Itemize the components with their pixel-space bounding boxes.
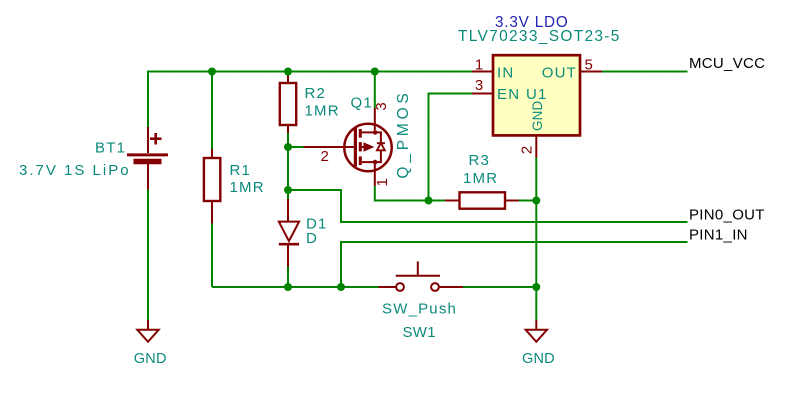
junction node EN / R3	[425, 197, 433, 205]
wire D1 top green	[287, 190, 289, 199]
wire R3 left green	[429, 200, 446, 202]
svg-text:GND: GND	[530, 100, 545, 130]
svg-text:GND: GND	[522, 351, 555, 367]
junction node GND rail	[532, 283, 540, 291]
svg-text:TLV70233_SOT23-5: TLV70233_SOT23-5	[458, 28, 621, 45]
wire R3 right green to U1 GND line	[519, 200, 536, 202]
ground symbol at battery	[137, 320, 158, 342]
svg-text:BT1: BT1	[95, 139, 126, 156]
wire EN from U1 down to R3 node	[429, 94, 473, 201]
junction node on rail at R2	[284, 68, 292, 76]
svg-text:PIN1_IN: PIN1_IN	[689, 227, 748, 244]
wire U1 GND down to GND symbol	[535, 158, 537, 321]
svg-text:MCU_VCC: MCU_VCC	[689, 55, 765, 72]
svg-text:R1: R1	[230, 162, 252, 179]
svg-text:1MR: 1MR	[230, 179, 265, 196]
wire switch right to GND node	[463, 286, 536, 288]
svg-text:IN: IN	[497, 65, 514, 82]
svg-text:U1: U1	[526, 86, 548, 103]
svg-text:SW1: SW1	[403, 324, 436, 341]
resistor R3	[445, 192, 519, 208]
junction node on rail at R1	[208, 68, 216, 76]
wire R2 bottom to gate node to D1 node	[287, 133, 289, 190]
junction node gate	[284, 143, 292, 151]
junction node PIN1 rail	[337, 283, 345, 291]
svg-text:Q1: Q1	[351, 95, 373, 112]
junction node R3 / U1 GND	[532, 197, 540, 205]
wire D1 bottom green	[287, 267, 289, 288]
svg-text:OUT: OUT	[542, 65, 577, 82]
svg-text:SW_Push: SW_Push	[382, 301, 457, 318]
wire top rail from battery to U1 IN	[148, 72, 472, 128]
resistor R1	[204, 149, 220, 224]
battery BT1	[127, 127, 168, 190]
svg-text:3: 3	[475, 77, 483, 94]
regulator U1 TLV70233	[472, 55, 602, 157]
wire R1 bottom down	[211, 224, 213, 288]
wire Q1 drain to R3 node	[375, 186, 429, 201]
push button SW1	[379, 261, 464, 291]
wire PIN0_OUT branch	[288, 190, 688, 222]
wire bottom rail to switch	[212, 286, 379, 288]
wire R1 top from rail	[211, 72, 213, 150]
transistor Q1 PMOS	[304, 108, 392, 186]
svg-text:1MR: 1MR	[305, 103, 340, 120]
diode D1	[279, 199, 299, 267]
svg-text:EN: EN	[497, 86, 520, 103]
wire U1 OUT to MCU_VCC	[602, 71, 688, 73]
svg-text:PIN0_OUT: PIN0_OUT	[689, 207, 765, 224]
svg-text:1: 1	[475, 57, 483, 74]
junction node D1 top / PIN0	[284, 186, 292, 194]
wire gate stub from R2 node	[288, 146, 304, 148]
junction node D1 bottom rail	[284, 283, 292, 291]
svg-text:D: D	[306, 230, 318, 247]
wire PIN1_IN branch	[341, 242, 688, 287]
svg-text:Q_PMOS: Q_PMOS	[395, 89, 412, 178]
svg-text:R3: R3	[469, 152, 491, 169]
junction node on rail at Q1	[371, 68, 379, 76]
svg-text:2: 2	[519, 146, 536, 154]
resistor R2	[280, 72, 296, 134]
svg-text:3: 3	[373, 102, 390, 110]
svg-text:3.7V 1S LiPo: 3.7V 1S LiPo	[19, 162, 131, 179]
ground symbol at regulator	[526, 320, 547, 342]
svg-text:2: 2	[321, 148, 329, 165]
wire battery minus down to GND symbol	[147, 190, 149, 321]
svg-text:5: 5	[585, 57, 593, 74]
svg-text:R2: R2	[305, 85, 327, 102]
svg-text:GND: GND	[134, 351, 167, 367]
wire Q1 source top green	[374, 72, 376, 109]
svg-text:1MR: 1MR	[463, 170, 498, 187]
svg-text:1: 1	[374, 178, 391, 186]
